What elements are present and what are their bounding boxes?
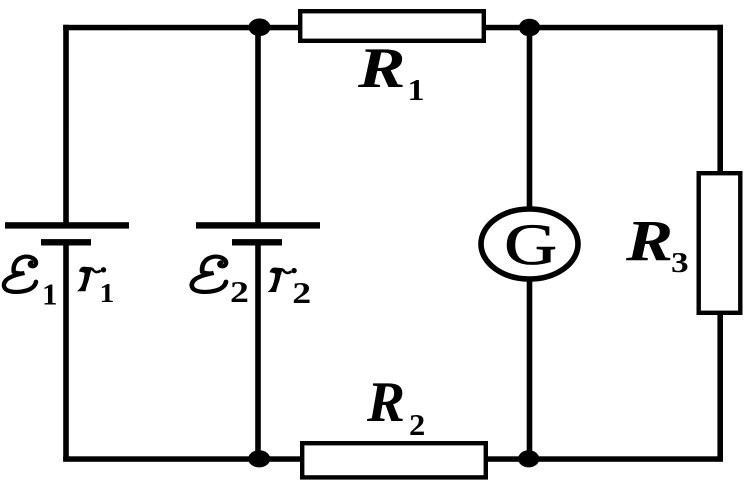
- resistor R1 label: [357, 37, 425, 108]
- wire: top-right horizontal (R1 right to top-right corner): [486, 25, 723, 31]
- galvanometer G body: [481, 209, 578, 279]
- label r2: [267, 267, 296, 292]
- svg-text:R: R: [625, 208, 673, 273]
- wire: right branch lower vertical: [717, 312, 723, 462]
- resistor R3 body: [699, 173, 741, 313]
- svg-text:R: R: [357, 37, 406, 100]
- svg-text:1: 1: [100, 279, 115, 308]
- wire: galvanometer branch lower vertical: [527, 279, 533, 462]
- svg-text:R: R: [366, 371, 405, 434]
- resistor R2 label: [366, 371, 425, 442]
- battery E1 short plate: [41, 239, 91, 245]
- label EMF E2 (script E): [192, 257, 226, 292]
- wire: right branch upper vertical: [717, 25, 723, 175]
- svg-text:1: 1: [42, 276, 58, 311]
- resistor R3 label: [625, 208, 689, 278]
- svg-text:2: 2: [409, 407, 425, 441]
- wire: left branch upper vertical: [63, 25, 69, 228]
- wire: galvanometer branch upper vertical: [527, 25, 533, 210]
- svg-text:3: 3: [671, 246, 689, 278]
- junction dot: node C bottom-left: [248, 450, 270, 467]
- svg-text:2: 2: [292, 276, 311, 310]
- resistor R1 body: [300, 11, 484, 41]
- wire: middle branch upper vertical: [255, 25, 261, 228]
- wire: bottom-left horizontal: [63, 456, 300, 462]
- junction dot: node D bottom-right: [518, 450, 539, 467]
- resistor R2 body: [302, 443, 486, 477]
- svg-text:1: 1: [408, 73, 425, 107]
- wire: middle branch lower vertical: [255, 240, 261, 462]
- wire: top-left horizontal (node A to R1 left): [63, 25, 298, 31]
- label r1: [77, 267, 106, 292]
- junction dot: node A top-left: [249, 19, 271, 37]
- wire: bottom-right horizontal: [488, 456, 723, 462]
- battery E2 long plate: [196, 222, 320, 228]
- svg-text:G: G: [504, 213, 557, 277]
- svg-text:2: 2: [230, 275, 249, 309]
- wire: left branch lower vertical: [63, 240, 69, 462]
- junction dot: node B top-right: [519, 19, 540, 37]
- battery E2 short plate: [232, 239, 282, 245]
- battery E1 long plate: [5, 222, 129, 228]
- label EMF E1 (script E): [4, 257, 36, 292]
